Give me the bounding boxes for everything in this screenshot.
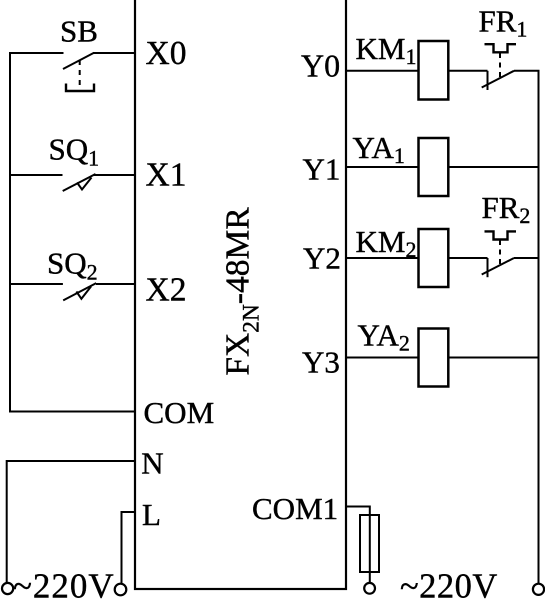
svg-text:Y0: Y0 — [301, 47, 340, 83]
svg-text:FR1: FR1 — [479, 4, 528, 42]
terminal COM1 — [364, 583, 375, 594]
terminal L — [115, 584, 127, 596]
wire Y3 to right rail — [448, 357, 539, 359]
wire Y0 row — [346, 70, 419, 72]
wire COM row — [9, 411, 135, 413]
PLC box FX2N-48MR — [135, 0, 346, 589]
svg-text:L: L — [142, 497, 161, 532]
contactor coil KM1 — [419, 41, 449, 100]
limit switch SQ2 contact — [63, 283, 96, 300]
SQ2 actuator chevron — [76, 286, 91, 298]
svg-text:SQ1: SQ1 — [49, 132, 100, 171]
wire Y2 coil to FR2 — [448, 257, 487, 259]
SQ1 actuator chevron — [77, 178, 92, 190]
svg-text:X2: X2 — [146, 272, 187, 309]
svg-text:~220V: ~220V — [400, 568, 498, 599]
svg-text:COM1: COM1 — [252, 491, 338, 526]
svg-text:YA1: YA1 — [353, 130, 405, 168]
solenoid valve coil YA2 — [419, 329, 449, 387]
wire X2 row right — [96, 283, 135, 285]
wire left input rail — [9, 52, 11, 413]
SB pushbutton head — [66, 84, 94, 92]
solenoid valve coil YA1 — [419, 138, 449, 196]
wire X1 row left — [9, 174, 63, 176]
svg-text:FX2N-48MR: FX2N-48MR — [220, 207, 265, 376]
FR1 NC contact blade — [482, 71, 514, 88]
wire Y1 row — [346, 166, 419, 168]
contactor coil KM2 — [419, 229, 449, 287]
wire X0 row right — [93, 52, 135, 54]
wire L row — [122, 512, 136, 584]
terminal N — [2, 583, 13, 594]
svg-text:X0: X0 — [146, 35, 187, 72]
wire X1 row right — [94, 174, 135, 176]
SB operator dashed link — [79, 60, 81, 91]
svg-text:N: N — [141, 446, 163, 481]
wire Y0 to right rail — [514, 70, 540, 72]
wire N row — [7, 461, 135, 583]
wire X0 row left — [9, 52, 64, 54]
svg-text:Y1: Y1 — [303, 151, 341, 186]
svg-text:Y3: Y3 — [302, 345, 340, 380]
wire Y2 row — [346, 257, 419, 259]
wire right output rail — [538, 71, 540, 584]
FR2 thermal element — [485, 231, 517, 239]
FR2 NC contact bar — [487, 258, 489, 277]
fuse FU — [360, 515, 379, 572]
svg-text:KM2: KM2 — [356, 224, 417, 262]
svg-text:SQ2: SQ2 — [47, 246, 98, 285]
wire COM1 — [346, 507, 370, 584]
svg-text:FR2: FR2 — [482, 190, 531, 228]
svg-text:COM: COM — [144, 395, 215, 430]
wire X2 row left — [9, 283, 63, 285]
svg-text:YA2: YA2 — [358, 318, 410, 356]
svg-text:KM1: KM1 — [356, 31, 417, 69]
wire Y3 row — [346, 357, 419, 359]
wire Y0 coil to FR1 — [448, 70, 487, 72]
svg-text:X1: X1 — [146, 157, 187, 194]
wire Y2 to right rail — [514, 257, 540, 259]
FR1 NC contact bar — [487, 71, 489, 90]
terminal right rail — [533, 584, 544, 595]
FR2 NC contact blade — [482, 258, 514, 275]
svg-text:~220V: ~220V — [13, 567, 115, 599]
wire Y1 to right rail — [448, 166, 539, 168]
FR1 thermal element — [485, 44, 517, 52]
limit switch SQ1 contact — [63, 174, 96, 191]
pushbutton SB contact — [63, 53, 94, 69]
svg-text:SB: SB — [60, 14, 98, 49]
FR1 dashed link — [499, 53, 501, 77]
svg-text:Y2: Y2 — [303, 241, 341, 276]
FR2 dashed link — [499, 240, 501, 264]
